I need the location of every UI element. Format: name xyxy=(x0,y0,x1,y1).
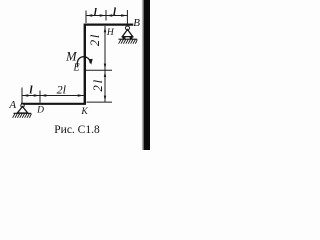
arrow up at H xyxy=(104,26,106,32)
arrow down at K level xyxy=(104,96,106,102)
moment arc arrowhead xyxy=(88,59,92,65)
scan edge black band xyxy=(144,0,150,150)
svg-text:K: K xyxy=(80,107,88,117)
bottom dim arrow left-right xyxy=(34,94,40,96)
support B: triangle xyxy=(122,30,132,37)
arrow down at E level xyxy=(104,64,106,70)
bottom dimension line xyxy=(22,95,84,97)
top dim tick right / B extension xyxy=(126,10,128,25)
top dim tick middle xyxy=(105,10,107,21)
top dim tick left xyxy=(85,11,87,24)
support B: roller right xyxy=(130,36,133,39)
top dim arrow left-right xyxy=(100,14,106,16)
svg-text:A: A xyxy=(8,99,16,111)
svg-text:B: B xyxy=(133,17,140,29)
bottom dim arrow right-right xyxy=(78,94,84,96)
svg-text:2l: 2l xyxy=(57,82,67,96)
svg-text:Рис. С1.8: Рис. С1.8 xyxy=(54,124,100,136)
moment M arc at E xyxy=(77,57,90,67)
support B: hatching xyxy=(119,39,138,43)
bottom dim arrow left-left xyxy=(22,94,28,96)
support A: hatching xyxy=(13,114,32,118)
support B: pin circle xyxy=(126,26,130,30)
bottom dim tick at A xyxy=(21,88,23,104)
svg-text:M: M xyxy=(65,49,77,63)
support A: pin circle xyxy=(21,104,24,107)
arrow up below E level xyxy=(104,71,106,77)
top dim arrow right-right xyxy=(121,14,127,16)
bottom dim arrow right-left xyxy=(40,94,46,96)
svg-text:E: E xyxy=(72,63,79,74)
support A: ground line xyxy=(14,112,32,114)
support A: triangle xyxy=(17,107,27,114)
support B: roller left xyxy=(122,36,125,39)
top dim arrow right-left xyxy=(106,14,112,16)
svg-text:2l: 2l xyxy=(88,33,102,46)
svg-text:H: H xyxy=(106,28,115,38)
member: bottom beam A-K xyxy=(21,103,86,105)
svg-text:D: D xyxy=(36,105,44,115)
right vertical dimension line xyxy=(104,26,106,102)
member: vertical column K to corner xyxy=(84,24,86,105)
bottom dim tick at D xyxy=(39,91,41,103)
top dimension line xyxy=(86,15,127,17)
E level extension line xyxy=(86,69,112,71)
svg-text:2l: 2l xyxy=(91,78,105,91)
support B: ground line xyxy=(119,38,138,40)
member: top beam H-B xyxy=(84,24,133,26)
top dim arrow left-left xyxy=(86,14,92,16)
K level extension line xyxy=(87,101,113,103)
